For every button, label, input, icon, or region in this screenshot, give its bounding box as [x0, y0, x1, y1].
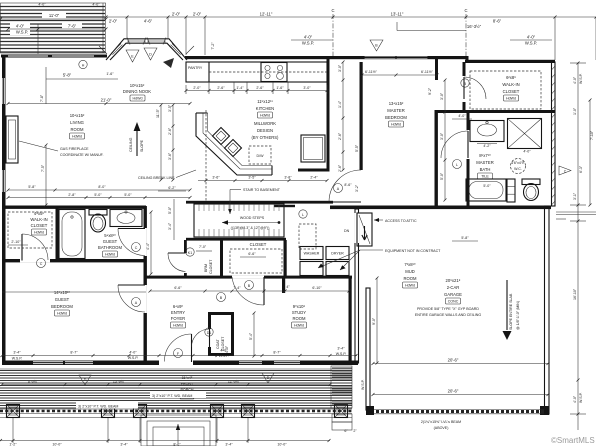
svg-text:HdWd: HdWd — [173, 324, 183, 328]
wall bottom of guest bath row — [2, 259, 146, 262]
svg-text:W.S.P.: W.S.P. — [302, 41, 314, 46]
svg-text:@ 1/8":1'-0" (MIN): @ 1/8":1'-0" (MIN) — [516, 301, 520, 330]
svg-text:3) 2"x10" P.T. WD. BEAM: 3) 2"x10" P.T. WD. BEAM — [152, 394, 192, 398]
master shower — [508, 119, 542, 149]
linen shelves — [507, 179, 515, 202]
svg-text:8'-0": 8'-0" — [98, 185, 106, 189]
hall dashed cabinet — [299, 224, 316, 249]
top wall kitchen — [185, 56, 333, 59]
dim 5'-8" right of attic — [452, 236, 478, 241]
side porch tiny dims — [344, 429, 357, 433]
svg-text:HdWd: HdWd — [294, 324, 304, 328]
bottom row dims over porch — [2, 347, 357, 361]
svg-text:20'-6": 20'-6" — [448, 358, 459, 363]
svg-text:KITCHEN: KITCHEN — [256, 106, 274, 111]
svg-text:3'-0": 3'-0" — [303, 86, 311, 90]
svg-text:8'-7": 8'-7" — [273, 351, 281, 355]
wall under stairs — [186, 238, 286, 241]
svg-text:7²x8¹⁰: 7²x8¹⁰ — [404, 262, 416, 267]
svg-text:6'-6": 6'-6" — [174, 286, 182, 290]
svg-text:W.S.P.: W.S.P. — [579, 73, 583, 84]
svg-text:2'-4": 2'-4" — [310, 176, 318, 180]
top dimension row — [106, 12, 596, 61]
fireplace note — [19, 141, 104, 157]
washer box — [300, 247, 323, 276]
kitchen right wall — [327, 59, 330, 171]
svg-text:21'-0": 21'-0" — [101, 98, 112, 103]
svg-text:W.C.: W.C. — [514, 167, 522, 171]
kitchen island counter (angled) — [196, 113, 272, 175]
svg-text:3'-1": 3'-1" — [573, 192, 577, 200]
garage dims — [361, 278, 549, 395]
ceiling slope arrow living room — [129, 122, 144, 156]
triangle marker B top — [370, 40, 383, 51]
coat closet bottom wall — [208, 353, 234, 356]
stove/range — [261, 63, 287, 82]
svg-text:MILLWORK: MILLWORK — [254, 121, 276, 126]
svg-text:12'-11": 12'-11" — [260, 12, 273, 17]
svg-text:6⁴x9⁰: 6⁴x9⁰ — [173, 304, 184, 309]
svg-text:GARAGE: GARAGE — [444, 292, 462, 297]
label master bedroom — [385, 101, 407, 127]
w.c. label — [511, 159, 526, 174]
svg-text:2'-0": 2'-0" — [193, 86, 201, 90]
guest bedroom right wall — [144, 206, 147, 363]
beam label — [421, 420, 461, 430]
svg-text:C: C — [564, 170, 567, 174]
svg-text:D: D — [84, 378, 87, 382]
vertical dim 5'-4" — [249, 313, 254, 356]
note 4'-0" W.S.P. center top — [291, 35, 333, 46]
svg-text:3'-0": 3'-0" — [440, 92, 444, 100]
master door A — [329, 170, 361, 202]
svg-text:3'-0": 3'-0" — [338, 64, 342, 72]
dishwasher dashed circle — [249, 146, 271, 164]
svg-text:D1: D1 — [207, 331, 212, 335]
svg-text:DINING NOOK: DINING NOOK — [123, 89, 151, 94]
label master walk-in closet — [502, 75, 519, 101]
svg-text:CEILING BREAK LINE: CEILING BREAK LINE — [138, 176, 175, 180]
svg-text:W.S.P.: W.S.P. — [128, 356, 139, 360]
svg-text:1'-6": 1'-6" — [106, 72, 114, 76]
master toilet — [522, 179, 540, 201]
svg-text:13'-11": 13'-11" — [391, 12, 404, 17]
svg-text:BRM: BRM — [204, 264, 208, 272]
svg-text:7'-5": 7'-5" — [41, 164, 45, 172]
kitchen counter dims — [186, 82, 327, 94]
label mud room — [403, 262, 418, 288]
gas fireplace — [6, 116, 18, 163]
svg-text:HdWd: HdWd — [391, 123, 401, 127]
svg-text:3'-4": 3'-4" — [120, 443, 128, 446]
living room dims row — [8, 183, 352, 198]
garage door beam (dashed) — [366, 406, 544, 415]
stairs direction arrow — [222, 220, 280, 224]
svg-text:6²x8⁶: 6²x8⁶ — [506, 75, 516, 80]
svg-text:CEILING: CEILING — [129, 137, 133, 152]
svg-text:C: C — [135, 246, 138, 250]
svg-text:3'-4": 3'-4" — [337, 347, 345, 351]
master tub — [466, 179, 506, 201]
master walk-in closet dashed rod — [470, 71, 541, 109]
svg-text:6'-11½": 6'-11½" — [365, 70, 378, 74]
deck hatch top-left (wood deck boards) — [0, 3, 106, 53]
svg-text:2'-6": 2'-6" — [338, 164, 342, 172]
svg-text:14⁶x10¹⁰: 14⁶x10¹⁰ — [54, 290, 71, 295]
left exterior wall — [2, 57, 6, 362]
svg-text:5'-0": 5'-0" — [94, 193, 102, 197]
svg-text:WOOD STEPS: WOOD STEPS — [240, 216, 265, 220]
foyer right / coat closet wall — [208, 315, 211, 356]
triangle marker E in bay — [126, 50, 139, 62]
svg-text:1'-2": 1'-2" — [9, 443, 17, 446]
svg-text:5'-0": 5'-0" — [168, 206, 172, 214]
master vanity — [470, 121, 504, 149]
svg-text:2'-0": 2'-0" — [109, 19, 118, 24]
label kitchen — [252, 99, 280, 140]
top wall master bedroom with window — [333, 56, 467, 59]
study left wall stub — [282, 278, 285, 293]
svg-text:8'-7": 8'-7" — [70, 351, 78, 355]
svg-text:4'-0": 4'-0" — [458, 114, 466, 118]
porch beam label — [76, 402, 138, 409]
svg-text:2'-8": 2'-8" — [68, 193, 76, 197]
svg-text:L: L — [302, 213, 304, 217]
svg-text:©SmartMLS: ©SmartMLS — [551, 436, 595, 445]
wall top of guest bath row — [2, 206, 146, 209]
dim 21'-0" — [8, 98, 190, 104]
svg-text:ROOM: ROOM — [292, 316, 306, 321]
closet under stairs — [230, 242, 282, 273]
front door F leaf and swing — [164, 334, 191, 362]
right wall upper (hatched) — [552, 62, 556, 206]
svg-text:6'-10": 6'-10" — [312, 286, 322, 290]
coat closet right wall — [231, 312, 234, 356]
svg-text:1'-6": 1'-6" — [276, 86, 284, 90]
mud room west wall — [355, 209, 360, 363]
svg-text:ROOM: ROOM — [70, 127, 84, 132]
svg-text:ENTRY: ENTRY — [171, 310, 185, 315]
svg-text:BATH: BATH — [480, 167, 491, 172]
triangle marker D in bay — [144, 48, 174, 68]
master bath west wall + door L — [441, 113, 470, 206]
bay windows glazing flat — [128, 39, 145, 43]
svg-text:HdWd: HdWd — [57, 312, 67, 316]
svg-text:5'-8": 5'-8" — [28, 185, 36, 189]
svg-text:SLOPE ENTIRE SLAB: SLOPE ENTIRE SLAB — [509, 293, 513, 330]
svg-text:2'-10": 2'-10" — [11, 240, 21, 244]
right edge dim column — [556, 63, 596, 430]
svg-text:2)1¾"x15⅜" LVL's BEAM: 2)1¾"x15⅜" LVL's BEAM — [421, 420, 461, 424]
svg-text:5'-0": 5'-0" — [440, 172, 444, 180]
svg-text:DN: DN — [344, 229, 350, 233]
svg-text:13⁴x15²: 13⁴x15² — [389, 101, 404, 106]
garage gyp board note — [415, 307, 482, 317]
svg-text:(ABOVE): (ABOVE) — [434, 426, 449, 430]
svg-text:3) 2"x10" P.T. WD. BEAM: 3) 2"x10" P.T. WD. BEAM — [78, 405, 118, 409]
svg-text:5'-8": 5'-8" — [461, 236, 469, 240]
svg-text:STUDY: STUDY — [292, 310, 306, 315]
bay window glazing right angled — [169, 44, 182, 57]
guest vanity — [110, 210, 142, 227]
wall closet/bath divider — [56, 208, 59, 260]
svg-text:9'-2": 9'-2" — [428, 87, 432, 95]
svg-text:D: D — [149, 53, 152, 57]
svg-text:2'-6": 2'-6" — [338, 132, 342, 140]
svg-text:ROOM: ROOM — [403, 276, 417, 281]
svg-text:7'-0": 7'-0" — [199, 245, 207, 249]
svg-text:10⁶x15²: 10⁶x15² — [130, 83, 145, 88]
svg-text:W.S.P.: W.S.P. — [361, 379, 365, 390]
dining nook dims — [40, 60, 118, 104]
svg-text:W.S.P.: W.S.P. — [579, 392, 583, 403]
study right wall — [349, 278, 352, 363]
svg-text:PROVIDE 5/8" TYPE "X" GYP BOAR: PROVIDE 5/8" TYPE "X" GYP BOARD — [417, 307, 479, 311]
svg-text:HdWd: HdWd — [72, 135, 82, 139]
svg-text:2'-0": 2'-0" — [172, 12, 181, 17]
top wall right section (walk-in closet) — [465, 60, 555, 63]
svg-text:4'-0": 4'-0" — [573, 76, 577, 84]
svg-text:HdWd: HdWd — [506, 97, 516, 101]
svg-text:GAS FIREPLACE: GAS FIREPLACE — [60, 147, 89, 151]
svg-text:7'-10": 7'-10" — [590, 130, 594, 140]
svg-text:3'-2": 3'-2" — [355, 184, 359, 192]
bay window wall (dining nook) — [106, 38, 187, 61]
svg-text:7'-4": 7'-4" — [233, 286, 241, 290]
svg-text:C: C — [464, 8, 467, 13]
svg-text:8⁵x7¹⁰: 8⁵x7¹⁰ — [479, 153, 491, 158]
stairwell top wall — [186, 201, 333, 204]
equipment note with leaders — [318, 249, 441, 270]
front door opening — [159, 360, 193, 366]
svg-text:4'-0": 4'-0" — [220, 349, 228, 353]
svg-text:5'-0": 5'-0" — [124, 193, 132, 197]
svg-text:D/W: D/W — [257, 154, 265, 158]
svg-text:MUD: MUD — [405, 269, 415, 274]
svg-text:16'-10": 16'-10" — [573, 288, 577, 300]
guest bedroom door A — [118, 285, 145, 312]
svg-text:1'-4": 1'-4" — [338, 100, 342, 108]
svg-text:BEDROOM: BEDROOM — [385, 115, 407, 120]
svg-text:4'-0": 4'-0" — [129, 351, 137, 355]
svg-text:3'-5": 3'-5" — [248, 176, 256, 180]
svg-text:ENTIRE GARAGE WALLS AND CEILIN: ENTIRE GARAGE WALLS AND CEILING — [415, 313, 482, 317]
garage/bath bottom wall (main interior spine) — [330, 206, 551, 210]
svg-text:FOYER: FOYER — [171, 316, 185, 321]
svg-text:TILE: TILE — [481, 175, 489, 179]
walk-in closet door — [22, 234, 48, 268]
section marker C left — [331, 8, 334, 56]
svg-text:20'-6": 20'-6" — [448, 389, 459, 394]
top wall under deck — [1, 55, 107, 58]
label guest walk-in closet — [8, 211, 52, 248]
stairs treads — [194, 204, 284, 237]
svg-text:10'-0": 10'-0" — [277, 443, 287, 446]
attic access hatch — [344, 213, 372, 246]
tiny top ticks — [38, 3, 100, 7]
svg-text:20⁶x21⁸: 20⁶x21⁸ — [446, 278, 461, 283]
svg-text:8'-0": 8'-0" — [173, 443, 181, 446]
svg-text:1'-4": 1'-4" — [236, 86, 244, 90]
svg-text:STAIR TO BASEMENT: STAIR TO BASEMENT — [243, 188, 281, 192]
svg-text:11'-0": 11'-0" — [49, 13, 60, 18]
svg-text:4'-0": 4'-0" — [573, 395, 577, 403]
svg-text:MASTER: MASTER — [387, 108, 404, 113]
kitchen bottom wall — [298, 169, 330, 172]
porch beam dashed — [0, 409, 352, 414]
svg-text:5'-4": 5'-4" — [249, 332, 253, 340]
dryer box — [326, 247, 349, 276]
stair to basement note — [228, 188, 281, 214]
svg-text:5'-8": 5'-8" — [63, 73, 72, 78]
svg-text:4'-0": 4'-0" — [523, 150, 531, 154]
door K1 — [168, 245, 212, 273]
svg-text:7'-2": 7'-2" — [211, 42, 215, 50]
label entry foyer — [171, 304, 186, 328]
svg-text:4'6"x4'9": 4'6"x4'9" — [511, 161, 525, 165]
svg-text:3'-5": 3'-5" — [168, 104, 172, 112]
svg-text:W.S.P.: W.S.P. — [336, 352, 347, 356]
svg-text:DESIGN: DESIGN — [257, 128, 273, 133]
coat closet door D1 — [192, 328, 214, 347]
svg-text:PANTRY: PANTRY — [188, 66, 203, 70]
svg-text:10'-0": 10'-0" — [52, 443, 62, 446]
svg-text:3'-4": 3'-4" — [13, 351, 21, 355]
porch dims — [2, 377, 330, 385]
porch triangle markers — [79, 373, 274, 385]
front porch hatch — [0, 369, 352, 418]
label garage — [444, 278, 462, 304]
svg-text:PORCH: PORCH — [181, 388, 194, 392]
closet/bath divider wall horizontal — [435, 110, 555, 113]
garage left wall — [366, 288, 370, 410]
svg-text:8'-6": 8'-6" — [493, 19, 502, 24]
svg-text:COORDINATE W/ MANUF.: COORDINATE W/ MANUF. — [60, 153, 104, 157]
svg-text:3'-0": 3'-0" — [440, 132, 444, 140]
svg-text:2'-0": 2'-0" — [193, 12, 202, 17]
label dining nook — [123, 83, 151, 101]
svg-text:6'-3": 6'-3" — [579, 165, 583, 173]
svg-text:COAT: COAT — [216, 338, 220, 349]
label front porch — [176, 373, 199, 400]
svg-text:4'-0": 4'-0" — [38, 3, 46, 7]
kitchen top counter — [186, 62, 327, 82]
master bedroom interior dims — [338, 62, 472, 200]
small dark marker triangle right of bay — [163, 58, 174, 68]
porch posts — [7, 405, 348, 418]
svg-text:11⁵x12¹¹: 11⁵x12¹¹ — [257, 99, 273, 104]
svg-text:4'-2": 4'-2" — [483, 144, 491, 148]
svg-text:DRYER: DRYER — [331, 252, 344, 256]
foyer row dims — [150, 285, 349, 291]
svg-text:1'-0": 1'-0" — [573, 107, 577, 115]
svg-text:CLOSET: CLOSET — [250, 242, 267, 247]
svg-text:CLOSET: CLOSET — [31, 223, 48, 228]
guest bathroom door C — [118, 229, 145, 256]
guest toilet — [89, 210, 107, 233]
svg-text:2'-6": 2'-6" — [256, 86, 264, 90]
svg-text:CLOSET: CLOSET — [209, 259, 213, 274]
svg-text:W.S.P.: W.S.P. — [16, 30, 28, 35]
svg-text:EQUIPMENT NOT IN CONTRACT: EQUIPMENT NOT IN CONTRACT — [385, 249, 441, 253]
svg-text:3'-6": 3'-6" — [212, 176, 220, 180]
master walk-in closet left wall with door B — [461, 62, 486, 110]
dim 4'-0" / 7'-6" over deck — [8, 22, 106, 54]
guest bedroom bottom dims — [2, 291, 146, 293]
svg-text:GUEST: GUEST — [55, 297, 70, 302]
foyer top wall with door B opening — [146, 276, 352, 279]
svg-text:11'-5": 11'-5" — [156, 108, 160, 118]
svg-text:K1: K1 — [188, 251, 192, 255]
ceiling break line — [138, 110, 206, 201]
svg-text:4⁴x5⁶: 4⁴x5⁶ — [34, 211, 45, 216]
label guest bedroom — [51, 290, 73, 316]
svg-text:6'-6": 6'-6" — [248, 252, 256, 256]
dim 11'-0" over deck — [0, 11, 106, 19]
bay window glazing left angled — [111, 44, 124, 57]
bottom exterior wall — [2, 360, 358, 366]
svg-text:W.S.P.: W.S.P. — [219, 354, 230, 358]
svg-text:HdWd: HdWd — [260, 114, 270, 118]
svg-text:5'-0": 5'-0" — [483, 184, 491, 188]
svg-text:SLOPE: SLOPE — [140, 139, 144, 152]
svg-text:WALK-IN: WALK-IN — [502, 82, 519, 87]
svg-text:5'-5": 5'-5" — [355, 144, 359, 152]
svg-text:4'-0": 4'-0" — [304, 35, 313, 40]
svg-text:6'-2": 6'-2" — [168, 186, 176, 190]
svg-text:3'-4": 3'-4" — [225, 443, 233, 446]
triangle marker C right wall — [559, 166, 571, 175]
svg-text:4'-0": 4'-0" — [16, 24, 25, 29]
garage right wall — [540, 206, 549, 415]
svg-text:W.S.P.: W.S.P. — [12, 357, 23, 361]
roof line stubs above bay — [99, 46, 194, 54]
closet right wall / laundry left — [284, 240, 287, 278]
svg-text:BATHROOM: BATHROOM — [98, 245, 122, 250]
svg-text:C: C — [40, 262, 43, 266]
svg-text:HdWd: HdWd — [34, 231, 44, 235]
kitchen bottom dims — [158, 176, 327, 192]
stair rail stub — [274, 205, 295, 207]
svg-text:LIVING: LIVING — [70, 120, 84, 125]
bottom dim row — [0, 418, 330, 446]
hallway vertical dim 4'-4" — [146, 199, 174, 274]
svg-text:C: C — [331, 8, 334, 13]
svg-text:(BY OTHERS): (BY OTHERS) — [252, 135, 280, 140]
svg-text:4'-0": 4'-0" — [527, 35, 536, 40]
svg-text:2'-6": 2'-6" — [217, 86, 225, 90]
left edge rotated dims — [41, 145, 46, 205]
label master bath — [476, 153, 493, 179]
slope slab note (rotated) — [503, 280, 521, 340]
svg-text:L: L — [456, 163, 458, 167]
svg-text:6'-11½": 6'-11½" — [421, 70, 434, 74]
svg-text:7'-6": 7'-6" — [68, 24, 77, 29]
svg-text:HdWd: HdWd — [405, 284, 415, 288]
side porch by garage — [331, 366, 352, 430]
kitchen vertical dims right — [156, 104, 173, 180]
refrigerator — [301, 135, 325, 162]
svg-text:GUEST: GUEST — [103, 239, 118, 244]
door B foyer — [217, 277, 265, 305]
master bedroom right wall — [435, 112, 438, 206]
stairs labels — [231, 216, 270, 230]
svg-text:4'-4": 4'-4" — [146, 242, 150, 250]
label living room — [70, 113, 85, 139]
note 4'-0" W.S.P. right top — [510, 35, 552, 46]
svg-text:CLOSET: CLOSET — [503, 89, 520, 94]
window left wall under deck — [8, 55, 48, 57]
